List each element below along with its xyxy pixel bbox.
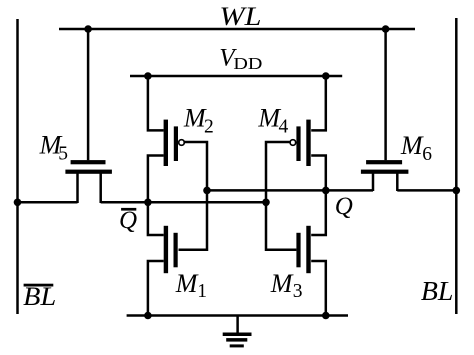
svg-text:Q: Q: [119, 207, 137, 234]
ground: [223, 333, 252, 348]
junction VDD-M2: [144, 72, 152, 80]
svg-text:DD: DD: [233, 54, 262, 73]
label BLbar: [23, 282, 56, 311]
transistor M4 (PMOS): [290, 120, 311, 166]
label M6: [400, 131, 432, 165]
wire node Q right segment: [397, 189, 456, 192]
wire M3 source to ground rail: [311, 261, 326, 316]
wire M5 gate from WL: [87, 29, 90, 160]
transistor M6 (NMOS access): [361, 160, 409, 191]
junction Qbar-M2M1: [144, 199, 152, 207]
wire left bit-line rail (BLbar): [16, 19, 19, 314]
junction Q-right-rail: [453, 187, 461, 195]
wire node Q middle segment: [207, 189, 373, 192]
svg-text:4: 4: [279, 116, 289, 137]
junction ground-M1: [144, 312, 152, 320]
transistor M5 (NMOS access): [65, 160, 112, 203]
transistor M3 (NMOS): [296, 226, 310, 273]
svg-text:6: 6: [422, 144, 432, 165]
junction WL-M6: [382, 25, 390, 33]
junction WL-M5: [84, 25, 92, 33]
wire ground rail: [127, 314, 348, 317]
wire ground stub: [236, 316, 239, 334]
wire M6 gate from WL: [384, 29, 387, 160]
transistor M2 (PMOS): [164, 120, 185, 166]
svg-text:Q: Q: [335, 193, 353, 220]
svg-text:WL: WL: [219, 2, 261, 31]
svg-text:M: M: [400, 131, 424, 160]
label VDD: [219, 44, 262, 73]
wire VDD to M4 source: [311, 76, 326, 130]
wire M4 drain to Q to M3 drain: [311, 156, 326, 236]
junction Q-M4M3: [322, 187, 330, 195]
junction Q-gates-M1M2: [203, 187, 211, 195]
label M5: [39, 131, 68, 165]
wire M2 drain to Qbar to M1 drain: [148, 156, 164, 236]
wire VDD rail: [130, 75, 342, 78]
junction Qbar-left-rail: [14, 199, 22, 207]
svg-text:1: 1: [197, 281, 207, 302]
svg-text:3: 3: [293, 281, 303, 302]
svg-text:M: M: [175, 269, 199, 298]
svg-text:BL: BL: [23, 282, 56, 311]
wire M1 source to ground rail: [148, 261, 164, 316]
wire node Qbar left segment: [18, 201, 78, 204]
node Qbar label: [119, 207, 137, 234]
label M4: [257, 104, 288, 138]
wire right bit-line rail (BL): [455, 18, 458, 314]
junction ground-M3: [322, 312, 330, 320]
label M2: [183, 104, 214, 138]
junction Qbar-gates-M3M4: [262, 199, 270, 207]
svg-text:BL: BL: [421, 276, 454, 306]
wire VDD to M2 source: [148, 76, 164, 130]
wire node Qbar middle segment: [101, 201, 266, 204]
wire WL word line: [59, 28, 415, 31]
junction VDD-M4: [322, 72, 330, 80]
wire M2 gate to node Q to M1 gate: [179, 142, 208, 250]
label M3: [270, 269, 303, 302]
transistor M1 (NMOS): [164, 226, 178, 273]
label M1: [175, 269, 207, 302]
svg-text:2: 2: [204, 116, 214, 137]
svg-text:M: M: [270, 269, 294, 298]
wire M4 gate to node Qbar to M3 gate: [266, 142, 296, 250]
svg-text:5: 5: [58, 144, 68, 165]
